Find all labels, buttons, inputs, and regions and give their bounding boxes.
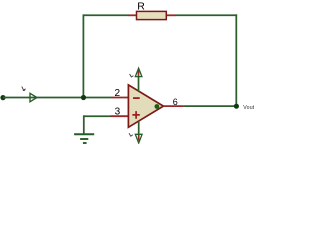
wire feedback vertical left	[82, 14, 84, 97]
wire top feedback horizontal left segment	[83, 14, 129, 16]
op-amp pin 3 stub	[111, 115, 129, 117]
ground bar 3	[83, 142, 87, 144]
power terminal arrow down	[135, 134, 142, 143]
svg-text:R: R	[137, 0, 145, 12]
ground bar 1	[74, 133, 94, 135]
power pin V- red stub	[138, 135, 140, 141]
input terminal buffer triangle	[30, 93, 37, 102]
svg-text:6: 6	[173, 97, 178, 107]
ground bar 2	[80, 138, 88, 140]
svg-text:3: 3	[115, 107, 121, 118]
power wire V-	[138, 122, 140, 135]
op-amp pin 6 output stub	[163, 105, 183, 107]
input node dot	[0, 95, 5, 100]
wire input horizontal	[3, 97, 111, 99]
op-amp minus sign	[133, 97, 140, 99]
input terminal tiny label mark	[22, 87, 26, 91]
wire output horizontal	[183, 105, 236, 107]
junction node right	[234, 104, 239, 109]
power wire V+	[138, 77, 140, 92]
op-amp pin 2 stub	[111, 97, 128, 99]
resistor R1 pin left	[129, 14, 137, 16]
power pin V+ red stub	[138, 69, 140, 76]
resistor R body	[137, 11, 167, 19]
power terminal arrow up	[135, 68, 142, 76]
svg-text:2: 2	[114, 88, 120, 99]
resistor R1 pin right	[166, 14, 175, 16]
power terminal V+ tiny label mark	[130, 74, 134, 77]
junction node left	[81, 95, 86, 100]
wire feedback vertical right	[235, 14, 237, 106]
wire ground vertical	[83, 115, 85, 134]
op-amp U1 body	[128, 85, 163, 127]
wire pin3 horizontal	[84, 115, 111, 117]
power terminal V- tiny label mark	[129, 133, 133, 136]
wire top feedback horizontal right segment	[175, 14, 237, 16]
svg-text:Vout: Vout	[243, 105, 254, 111]
op-amp internal node dot	[155, 104, 160, 109]
op-amp plus sign	[132, 111, 139, 119]
